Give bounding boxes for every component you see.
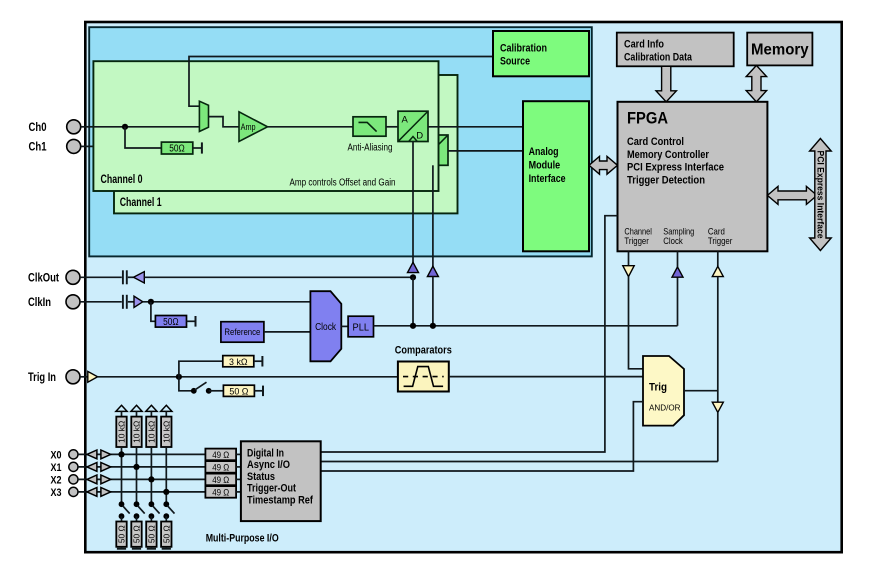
block arrow Card Info to FPGA: [656, 66, 676, 102]
svg-text:Trigger-Out: Trigger-Out: [247, 482, 296, 494]
Trig AND/OR block: [643, 356, 684, 426]
wire Ch0 input stub: [81, 126, 94, 128]
Calibration Source box: [493, 31, 589, 76]
Analog Module Interface box: [523, 101, 589, 251]
node ClkOut connector circle: [66, 270, 80, 284]
wire ClkOut to clock node: [144, 276, 413, 278]
wire comparator output to Trig block: [449, 376, 643, 378]
node Ch1 connector circle: [67, 139, 81, 153]
channel trigger triangle (points down, yellow): [623, 266, 634, 277]
resistor 50 ohm pulldown X3: [161, 522, 171, 547]
svg-text:Ch1: Ch1: [29, 142, 47, 154]
svg-text:Interface: Interface: [529, 173, 566, 185]
svg-text:X1: X1: [51, 462, 62, 474]
wire capacitor to buffer: [128, 301, 134, 303]
wire Ch0 signal to mux: [93, 126, 199, 128]
Card Info / Calibration Data box: [617, 33, 734, 67]
wire sampling clock vertical up to FPGA: [677, 276, 679, 326]
svg-text:FPGA: FPGA: [627, 108, 668, 127]
wire switch to 50 ohm X1: [136, 516, 138, 521]
Memory box: [747, 33, 812, 66]
buffer triangle ClkOut (points left): [134, 272, 145, 283]
wire resistor to terminator: [187, 320, 196, 322]
wire pullup column X0: [121, 447, 123, 504]
wire card trigger from FPGA: [717, 251, 719, 266]
wire X2 line: [78, 478, 205, 480]
svg-text:3 kΩ: 3 kΩ: [229, 357, 248, 368]
wire ADC U1 clock input vertical: [412, 142, 414, 264]
resistor 10k pullup X2: [146, 417, 156, 447]
wire pullup column X1: [136, 447, 138, 504]
ADC U1 (channel 0): [398, 111, 428, 141]
wire supply to resistor X3: [165, 411, 167, 416]
wire ClkIn to Clock block: [143, 301, 311, 303]
card outer frame: [85, 22, 841, 552]
svg-text:Analog: Analog: [529, 146, 559, 158]
resistor 50 ohm (trig termination): [223, 385, 254, 397]
svg-text:Timestamp Ref: Timestamp Ref: [247, 495, 313, 507]
wire ClkOut line: [80, 276, 122, 278]
node Ch0 connector circle: [67, 120, 81, 134]
svg-text:Ch0: Ch0: [29, 122, 47, 134]
wire switch to 50 ohm X0: [121, 516, 123, 521]
capacitor on ClkOut line: [123, 270, 127, 284]
wire FPGA to Digital IO (digital in): [321, 216, 618, 452]
ground X1: [132, 547, 141, 549]
resistor 49 ohm series X3: [205, 486, 236, 498]
svg-text:10 kΩ: 10 kΩ: [146, 421, 156, 443]
svg-text:D: D: [416, 131, 423, 142]
svg-text:Card Control: Card Control: [627, 136, 684, 148]
wire channel trigger to Trig block: [629, 277, 644, 369]
wire switch to resistor: [209, 390, 224, 392]
svg-text:Trig: Trig: [649, 381, 667, 393]
Channel 1 box: [114, 75, 458, 213]
svg-text:X0: X0: [51, 449, 62, 461]
svg-text:50Ω: 50Ω: [169, 144, 185, 155]
svg-text:50Ω: 50Ω: [163, 317, 179, 328]
wire switch to 50 ohm X3: [165, 516, 167, 521]
svg-text:49 Ω: 49 Ω: [212, 462, 229, 472]
resistor 50 ohm pulldown X2: [146, 522, 156, 547]
terminator bar: [201, 142, 203, 153]
ADC U2 (channel 1, partially hidden): [418, 135, 448, 165]
PLL box: [348, 316, 373, 337]
Digital IO box: [241, 441, 321, 521]
block arrow Analog Module Interface to FPGA (bidirectional): [589, 156, 618, 174]
wire resistor to terminator: [254, 390, 262, 392]
node X0 connector circle: [69, 450, 78, 459]
wire branch to 3k resistor: [179, 361, 223, 377]
resistor 50ohm (channel 0 input termination): [161, 142, 192, 155]
wire AND/OR input from status line: [321, 402, 643, 471]
svg-text:49 Ω: 49 Ω: [212, 475, 229, 485]
card trigger triangle (points up, yellow): [712, 266, 723, 276]
filter Anti-Aliasing: [353, 117, 386, 136]
analog module blue box: [89, 27, 592, 256]
switch (trig 50 ohm select): [191, 382, 212, 393]
wire PLL output to FPGA sampling clock: [374, 325, 678, 327]
capacitor on ClkIn line: [123, 295, 127, 309]
sampling clock triangle (points up, purple): [672, 267, 683, 277]
svg-text:Anti-Aliasing: Anti-Aliasing: [348, 143, 393, 154]
wire calibration feedback to mux: [189, 57, 493, 107]
svg-text:10 kΩ: 10 kΩ: [161, 421, 171, 443]
svg-text:Trigger: Trigger: [624, 236, 649, 247]
wire channel trigger from FPGA: [628, 251, 630, 265]
svg-text:10 kΩ: 10 kΩ: [117, 421, 127, 443]
resistor 50 ohm pulldown X1: [131, 522, 141, 547]
svg-text:Module: Module: [529, 160, 561, 172]
wire trigger out down to async line: [717, 412, 719, 461]
svg-text:Status: Status: [247, 471, 275, 483]
wire clock vertical ADC1 to PLL line: [432, 277, 434, 326]
svg-text:Channel 1: Channel 1: [120, 197, 162, 209]
node X2 connector circle: [69, 475, 78, 484]
node junction dot X1: [133, 464, 139, 470]
svg-text:50 Ω: 50 Ω: [117, 525, 127, 543]
wire 49 ohm to Digital IO X3: [236, 491, 241, 493]
wire triangle to FPGA bottom: [677, 251, 679, 267]
svg-text:Trig In: Trig In: [28, 372, 56, 384]
wire Reference to Clock: [264, 331, 311, 333]
svg-text:49 Ω: 49 Ω: [212, 487, 229, 497]
svg-text:PCI Express Interface: PCI Express Interface: [815, 151, 825, 239]
wire ADC U2 output to Analog Module Interface: [448, 150, 523, 152]
node ClkIn connector circle: [66, 295, 80, 309]
svg-text:PLL: PLL: [353, 321, 370, 333]
clock input triangle ADC0 (points up): [408, 262, 419, 272]
svg-text:PCI Express Interface: PCI Express Interface: [627, 162, 724, 174]
buffer pair X0 (bidirectional): [87, 450, 111, 459]
pullup supply arrow X0: [116, 405, 127, 411]
svg-text:ClkIn: ClkIn: [28, 297, 51, 309]
svg-text:A: A: [402, 114, 409, 125]
ground X3: [162, 547, 171, 549]
buffer triangle Trig In (points right, yellow): [88, 371, 98, 382]
svg-text:ClkOut: ClkOut: [28, 272, 59, 284]
svg-text:Calibration Data: Calibration Data: [624, 51, 693, 63]
wire switch to 50 ohm X2: [150, 516, 152, 521]
node junction dot on ClkIn wire: [148, 299, 154, 305]
wire card trigger vertical: [717, 277, 719, 403]
terminator bar: [262, 386, 264, 397]
svg-text:Amp: Amp: [241, 122, 256, 133]
buffer pair X1 (bidirectional): [87, 463, 111, 472]
svg-text:Source: Source: [500, 56, 530, 68]
svg-text:Clock: Clock: [663, 236, 683, 247]
svg-text:10 kΩ: 10 kΩ: [132, 421, 142, 443]
resistor 49 ohm series X0: [205, 449, 236, 461]
resistor 49 ohm series X1: [205, 461, 236, 473]
pullup supply arrow X1: [131, 405, 142, 411]
switch termination X1: [134, 501, 145, 519]
wire capacitor to buffer: [128, 276, 134, 278]
switch termination X2: [149, 501, 160, 519]
wire amp to anti-aliasing filter: [268, 126, 354, 128]
svg-text:Card Info: Card Info: [624, 38, 664, 50]
wire ADC U1 output to Analog Module Interface: [428, 126, 523, 128]
svg-text:Calibration: Calibration: [500, 43, 547, 55]
buffer pair X2 (bidirectional): [87, 475, 111, 484]
mux input selector: [199, 101, 208, 131]
svg-text:Trigger: Trigger: [708, 236, 733, 247]
node clock junction dot (ADC0 clock / ClkOut): [410, 274, 416, 280]
resistor 10k pullup X0: [116, 417, 126, 447]
resistor 10k pullup X1: [131, 417, 141, 447]
svg-text:Async I/O: Async I/O: [247, 459, 290, 471]
svg-text:X3: X3: [51, 487, 62, 499]
svg-text:Reference: Reference: [224, 327, 260, 337]
svg-text:Multi-Purpose I/O: Multi-Purpose I/O: [206, 532, 279, 544]
wire Trig In to Comparators: [98, 376, 398, 378]
Reference box: [221, 322, 264, 343]
resistor 50 ohm pulldown X0: [116, 522, 126, 547]
svg-text:Digital In: Digital In: [247, 447, 284, 459]
wire clock vertical ADC0 to PLL line: [412, 277, 414, 326]
pullup supply arrow X2: [146, 405, 157, 411]
trigger out triangle (points down, yellow): [712, 402, 723, 412]
ground X2: [147, 547, 156, 549]
wire supply to resistor X1: [136, 411, 138, 416]
wire branch to 50 ohm termination: [125, 127, 161, 148]
wire 49 ohm to Digital IO X0: [236, 453, 241, 455]
node dot PLL line to ADC0 clock: [410, 323, 416, 329]
Clock block: [310, 291, 341, 361]
ground X0: [117, 547, 126, 549]
svg-text:Channel 0: Channel 0: [101, 174, 143, 186]
svg-text:49 Ω: 49 Ω: [212, 450, 229, 460]
block arrow Memory to FPGA (bidirectional): [746, 65, 766, 101]
node junction dot on Ch0 wire: [122, 124, 128, 130]
svg-text:Memory Controller: Memory Controller: [627, 149, 709, 161]
node junction dot on trig wire: [176, 374, 182, 380]
svg-text:50 Ω: 50 Ω: [132, 525, 142, 543]
wire X0 line: [78, 453, 205, 455]
wire 49 ohm to Digital IO X1: [236, 466, 241, 468]
wire ADC U2 clock input vertical: [432, 165, 434, 267]
switch termination X0: [119, 501, 130, 519]
wire resistor to terminator: [254, 360, 262, 362]
wire Ch1 input stub: [81, 145, 96, 147]
svg-text:Amp controls Offset and Gain: Amp controls Offset and Gain: [290, 178, 396, 189]
Channel 0 box: [93, 61, 438, 191]
wire 49 ohm to Digital IO X2: [236, 478, 241, 480]
wire pullup column X2: [150, 447, 152, 504]
node junction dot X0: [118, 451, 124, 457]
svg-text:AND/OR: AND/OR: [649, 403, 681, 413]
resistor 3k (trig input impedance): [223, 356, 254, 368]
wire Trig In stub: [80, 376, 88, 378]
node Trig In connector circle: [66, 370, 80, 384]
comparator box: [398, 362, 449, 392]
node dot PLL line to ADC1 clock: [430, 323, 436, 329]
resistor 10k pullup X3: [161, 417, 171, 447]
resistor 50ohm (ClkIn termination): [155, 316, 186, 329]
block arrow FPGA to PCI Express bar (bidirectional): [767, 186, 817, 204]
wire mux to amp: [209, 117, 240, 127]
PCI Express Interface vertical bus arrow: [810, 139, 832, 251]
wire filter to ADC: [386, 126, 398, 128]
terminator bar: [261, 356, 263, 367]
wire async/trigger-out line to Digital IO box: [321, 461, 718, 463]
wire supply to resistor X2: [150, 411, 152, 416]
wire Trig output to card trigger line: [684, 390, 718, 392]
wire resistor to terminator: [193, 147, 202, 149]
node junction dot X2: [148, 476, 154, 482]
svg-text:50 Ω: 50 Ω: [146, 525, 156, 543]
FPGA box: [618, 102, 768, 252]
wire Clock to PLL: [341, 325, 348, 327]
svg-text:Comparators: Comparators: [395, 344, 452, 356]
wire X3 line: [78, 491, 205, 493]
svg-text:Clock: Clock: [315, 321, 337, 333]
buffer triangle ClkIn (points right): [134, 296, 143, 307]
node X1 connector circle: [69, 462, 78, 471]
node junction dot X3: [163, 489, 169, 495]
svg-text:50 Ω: 50 Ω: [229, 387, 248, 398]
switch termination X3: [163, 501, 174, 519]
terminator bar: [195, 316, 197, 327]
svg-text:Memory: Memory: [751, 42, 809, 59]
wire pullup column X3: [165, 447, 167, 504]
wire ClkIn line: [80, 301, 122, 303]
buffer pair X3 (bidirectional): [87, 488, 111, 497]
node X3 connector circle: [69, 487, 78, 496]
pullup supply arrow X3: [161, 405, 172, 411]
op-amp Amp: [239, 112, 268, 142]
wire X1 line: [78, 466, 205, 468]
wire branch to 50 ohm switchable termination: [179, 377, 192, 391]
svg-text:Trigger Detection: Trigger Detection: [627, 174, 705, 186]
svg-text:X2: X2: [51, 474, 62, 486]
svg-text:50 Ω: 50 Ω: [161, 525, 171, 543]
wire supply to resistor X0: [121, 411, 123, 416]
resistor 49 ohm series X2: [205, 474, 236, 486]
clock input triangle ADC1 (points up): [427, 266, 438, 276]
wire branch to 50 ohm clkin termination: [151, 302, 156, 322]
